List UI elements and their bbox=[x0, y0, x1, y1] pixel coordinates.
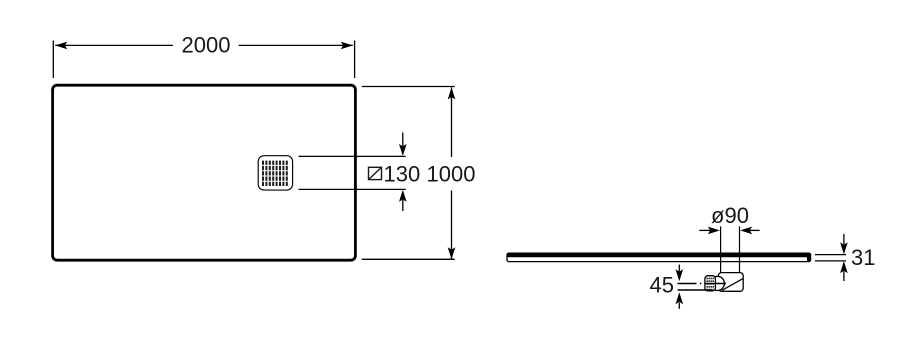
dimension o90 extension line right / pipe wall right bbox=[739, 226, 741, 272]
trap centerline dash-dot bbox=[678, 283, 697, 285]
dimension 31 extension line bottom bbox=[815, 260, 846, 262]
trap elbow body bbox=[718, 273, 743, 292]
dimension 130 line bottom bbox=[299, 188, 406, 190]
dimension 2000 extension line left bbox=[52, 41, 54, 79]
trap nut bbox=[705, 276, 716, 291]
arrow down 130 bbox=[402, 133, 404, 147]
arrow o90 right bbox=[750, 229, 760, 231]
arrow down 1000 bbox=[448, 247, 456, 259]
svg-text:45: 45 bbox=[650, 272, 674, 297]
svg-text:ø90: ø90 bbox=[711, 203, 749, 228]
arrow up 130 bbox=[402, 200, 404, 211]
arrow 31 down bbox=[843, 234, 845, 245]
dimension o90 extension line left / pipe wall left bbox=[720, 226, 722, 272]
arrow o90 left bbox=[699, 229, 710, 231]
trap elbow diagonal bbox=[722, 279, 743, 291]
dimension 2000 line bbox=[55, 44, 173, 46]
arrow left 2000 bbox=[55, 42, 67, 50]
dimension 2000 extension line right bbox=[354, 41, 356, 79]
arrow up 1000 bbox=[448, 87, 456, 99]
section top surface thick line bbox=[507, 253, 811, 261]
arrow 45 down bbox=[678, 265, 680, 272]
arrow 31 up bbox=[843, 271, 845, 281]
arrow 45 up bbox=[678, 303, 680, 309]
dimension 1000 line bbox=[451, 87, 453, 157]
tray plan view outline bbox=[53, 85, 356, 260]
svg-text:2000: 2000 bbox=[182, 33, 231, 58]
dimension 31 extension line top bbox=[815, 254, 846, 256]
trap socket circle bbox=[710, 276, 724, 290]
dimension 130 line top bbox=[299, 155, 406, 157]
dimension 45 lower line bbox=[678, 289, 713, 291]
dimension 1000 extension line top bbox=[362, 86, 455, 88]
arrow right 2000 bbox=[341, 42, 353, 50]
svg-text:1000: 1000 bbox=[427, 161, 476, 186]
trap nut knurl bbox=[707, 278, 713, 290]
drain grate slots bbox=[263, 161, 287, 186]
drain grate bbox=[258, 156, 292, 190]
svg-text:31: 31 bbox=[851, 245, 875, 270]
tray section profile bbox=[507, 253, 811, 261]
dimension 1000 extension line bottom bbox=[362, 258, 455, 260]
svg-text:130: 130 bbox=[384, 161, 421, 186]
square symbol bbox=[369, 167, 382, 179]
